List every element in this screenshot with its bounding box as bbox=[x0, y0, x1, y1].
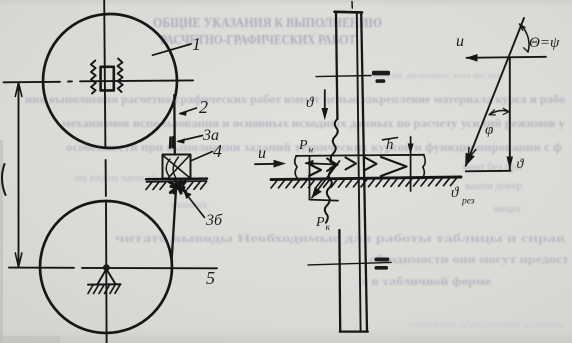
svg-text:вании довер: вании довер bbox=[465, 180, 522, 192]
svg-text:ем видам записей: ем видам записей bbox=[75, 172, 158, 184]
ground line (right diagram) bbox=[271, 177, 461, 180]
workpiece top line bbox=[296, 155, 424, 156]
svg-text:Θ=ψ: Θ=ψ bbox=[529, 35, 560, 51]
svg-text:1: 1 bbox=[192, 34, 201, 54]
upper section mark line bbox=[316, 76, 371, 77]
guide box 4 bbox=[163, 155, 191, 179]
svg-text:РАСЧЕТНО-ГРАФИЧЕСКИХ РАБОТ: РАСЧЕТНО-ГРАФИЧЕСКИХ РАБОТ bbox=[160, 33, 357, 48]
blade right outer line bbox=[361, 12, 367, 331]
pivot support triangle bbox=[98, 269, 116, 284]
label v_rez bbox=[451, 185, 475, 207]
blade centerline tick above cap bbox=[351, 2, 353, 9]
pivot ground hatch bbox=[88, 284, 121, 293]
velocity triangle: u arrow bbox=[456, 33, 546, 62]
svg-text:собраний, дисциплины, всего ни: собраний, дисциплины, всего них виде bbox=[370, 71, 503, 80]
vertical centerline through both wheels bbox=[104, 0, 106, 343]
lower guide bearing 3b (dark blob) bbox=[170, 181, 186, 194]
workpiece right edge bbox=[422, 155, 426, 179]
angle theta arc with arrows bbox=[520, 24, 530, 52]
saw blade segment on left diagram (line 2) bbox=[173, 95, 176, 154]
force label Pn bbox=[298, 138, 314, 156]
svg-text:ния выполнения расчетно-графич: ния выполнения расчетно-графических рабо… bbox=[25, 92, 565, 106]
velocity triangle: vertical v arrow bbox=[507, 58, 525, 172]
hub tension spring right (zigzag) bbox=[118, 59, 123, 93]
svg-text:ϑ: ϑ bbox=[517, 157, 525, 172]
material flow chevron 3 bbox=[346, 158, 357, 170]
svg-text:принятые обозначения величин: принятые обозначения величин bbox=[409, 319, 564, 331]
label 3a with arrow bbox=[176, 127, 219, 144]
blade left edge upper bbox=[336, 12, 337, 119]
svg-text:2: 2 bbox=[199, 97, 208, 117]
lower section mark line bbox=[308, 262, 391, 265]
svg-text:φ: φ bbox=[485, 122, 493, 138]
angle phi arc with arrows bbox=[489, 108, 509, 115]
ground under guide box bbox=[146, 179, 207, 190]
upper wheel 1 (circle) bbox=[43, 14, 177, 148]
ground hatch (right diagram) bbox=[271, 178, 457, 188]
svg-text:рез: рез bbox=[461, 197, 475, 207]
pivot center dot bbox=[103, 264, 110, 271]
blade (right diagram) top cap bbox=[335, 11, 363, 14]
guide element 3a (double tick on blade) bbox=[170, 137, 173, 148]
velocity triangle: resultant slant arrow bbox=[465, 18, 524, 167]
depth arrow line h bbox=[408, 137, 414, 191]
resultant force diagonal arrow bbox=[312, 161, 340, 198]
material flow chevron 5 (large) bbox=[381, 157, 407, 176]
svg-text:P: P bbox=[298, 138, 308, 153]
upper section mark black bars bbox=[372, 71, 390, 83]
label 4 with arrow bbox=[192, 141, 223, 161]
blade toothed edge (serrations) bbox=[325, 119, 338, 223]
material flow chevron 2 bbox=[327, 159, 338, 172]
lower wheel horizontal centerline bbox=[9, 267, 217, 270]
svg-text:а в табличной форме: а в табличной форме bbox=[361, 274, 492, 288]
cutting speed label v with down arrow bbox=[306, 90, 328, 120]
blade bottom cap bbox=[340, 330, 368, 332]
material flow chevron 4 bbox=[365, 158, 377, 171]
svg-text:5: 5 bbox=[206, 268, 215, 288]
svg-text:ницах: ницах bbox=[493, 203, 522, 215]
svg-text:н: н bbox=[309, 146, 314, 156]
saw blade lower segment bbox=[172, 183, 177, 262]
upper wheel horizontal centerline bbox=[4, 80, 194, 82]
force label Pk bbox=[315, 215, 331, 233]
force parallelogram left side bbox=[309, 156, 311, 199]
svg-text:обходимости они могут предост: обходимости они могут предост bbox=[369, 252, 569, 266]
svg-text:3б: 3б bbox=[205, 212, 223, 229]
Pn horizontal arrow bbox=[304, 160, 337, 166]
label 1 bbox=[153, 34, 202, 55]
svg-text:u: u bbox=[456, 33, 464, 50]
svg-text:P: P bbox=[315, 215, 325, 230]
center distance dimension line bbox=[15, 83, 22, 268]
svg-text:к: к bbox=[326, 223, 331, 233]
blade left edge lower bbox=[338, 230, 341, 332]
page-edge pen mark bbox=[2, 164, 6, 195]
workpiece torn left edge bbox=[295, 156, 298, 178]
svg-text:ОБЩИЕ УКАЗАНИЯ К ВЫПОЛНЕНИЮ: ОБЩИЕ УКАЗАНИЯ К ВЫПОЛНЕНИЮ bbox=[153, 16, 382, 31]
material flow chevron 1 bbox=[309, 164, 321, 176]
svg-text:4: 4 bbox=[213, 141, 222, 161]
blade right inner line bbox=[357, 12, 361, 331]
lower wheel 5 (circle) bbox=[40, 201, 172, 333]
depth label h with bar bbox=[383, 137, 398, 153]
feed velocity label u with arrow (between diagrams) bbox=[255, 145, 286, 168]
hub tension spring left (zigzag) bbox=[91, 61, 96, 94]
lower section mark black bars bbox=[375, 258, 390, 270]
force parallelogram bottom bbox=[310, 200, 339, 201]
svg-text:u: u bbox=[258, 145, 266, 162]
label 3b with arrow bbox=[184, 191, 224, 229]
velocity triangle: bottom line bbox=[466, 170, 511, 173]
hub slider rectangle on upper wheel bbox=[101, 67, 114, 91]
label 2 with arrow bbox=[179, 97, 209, 117]
